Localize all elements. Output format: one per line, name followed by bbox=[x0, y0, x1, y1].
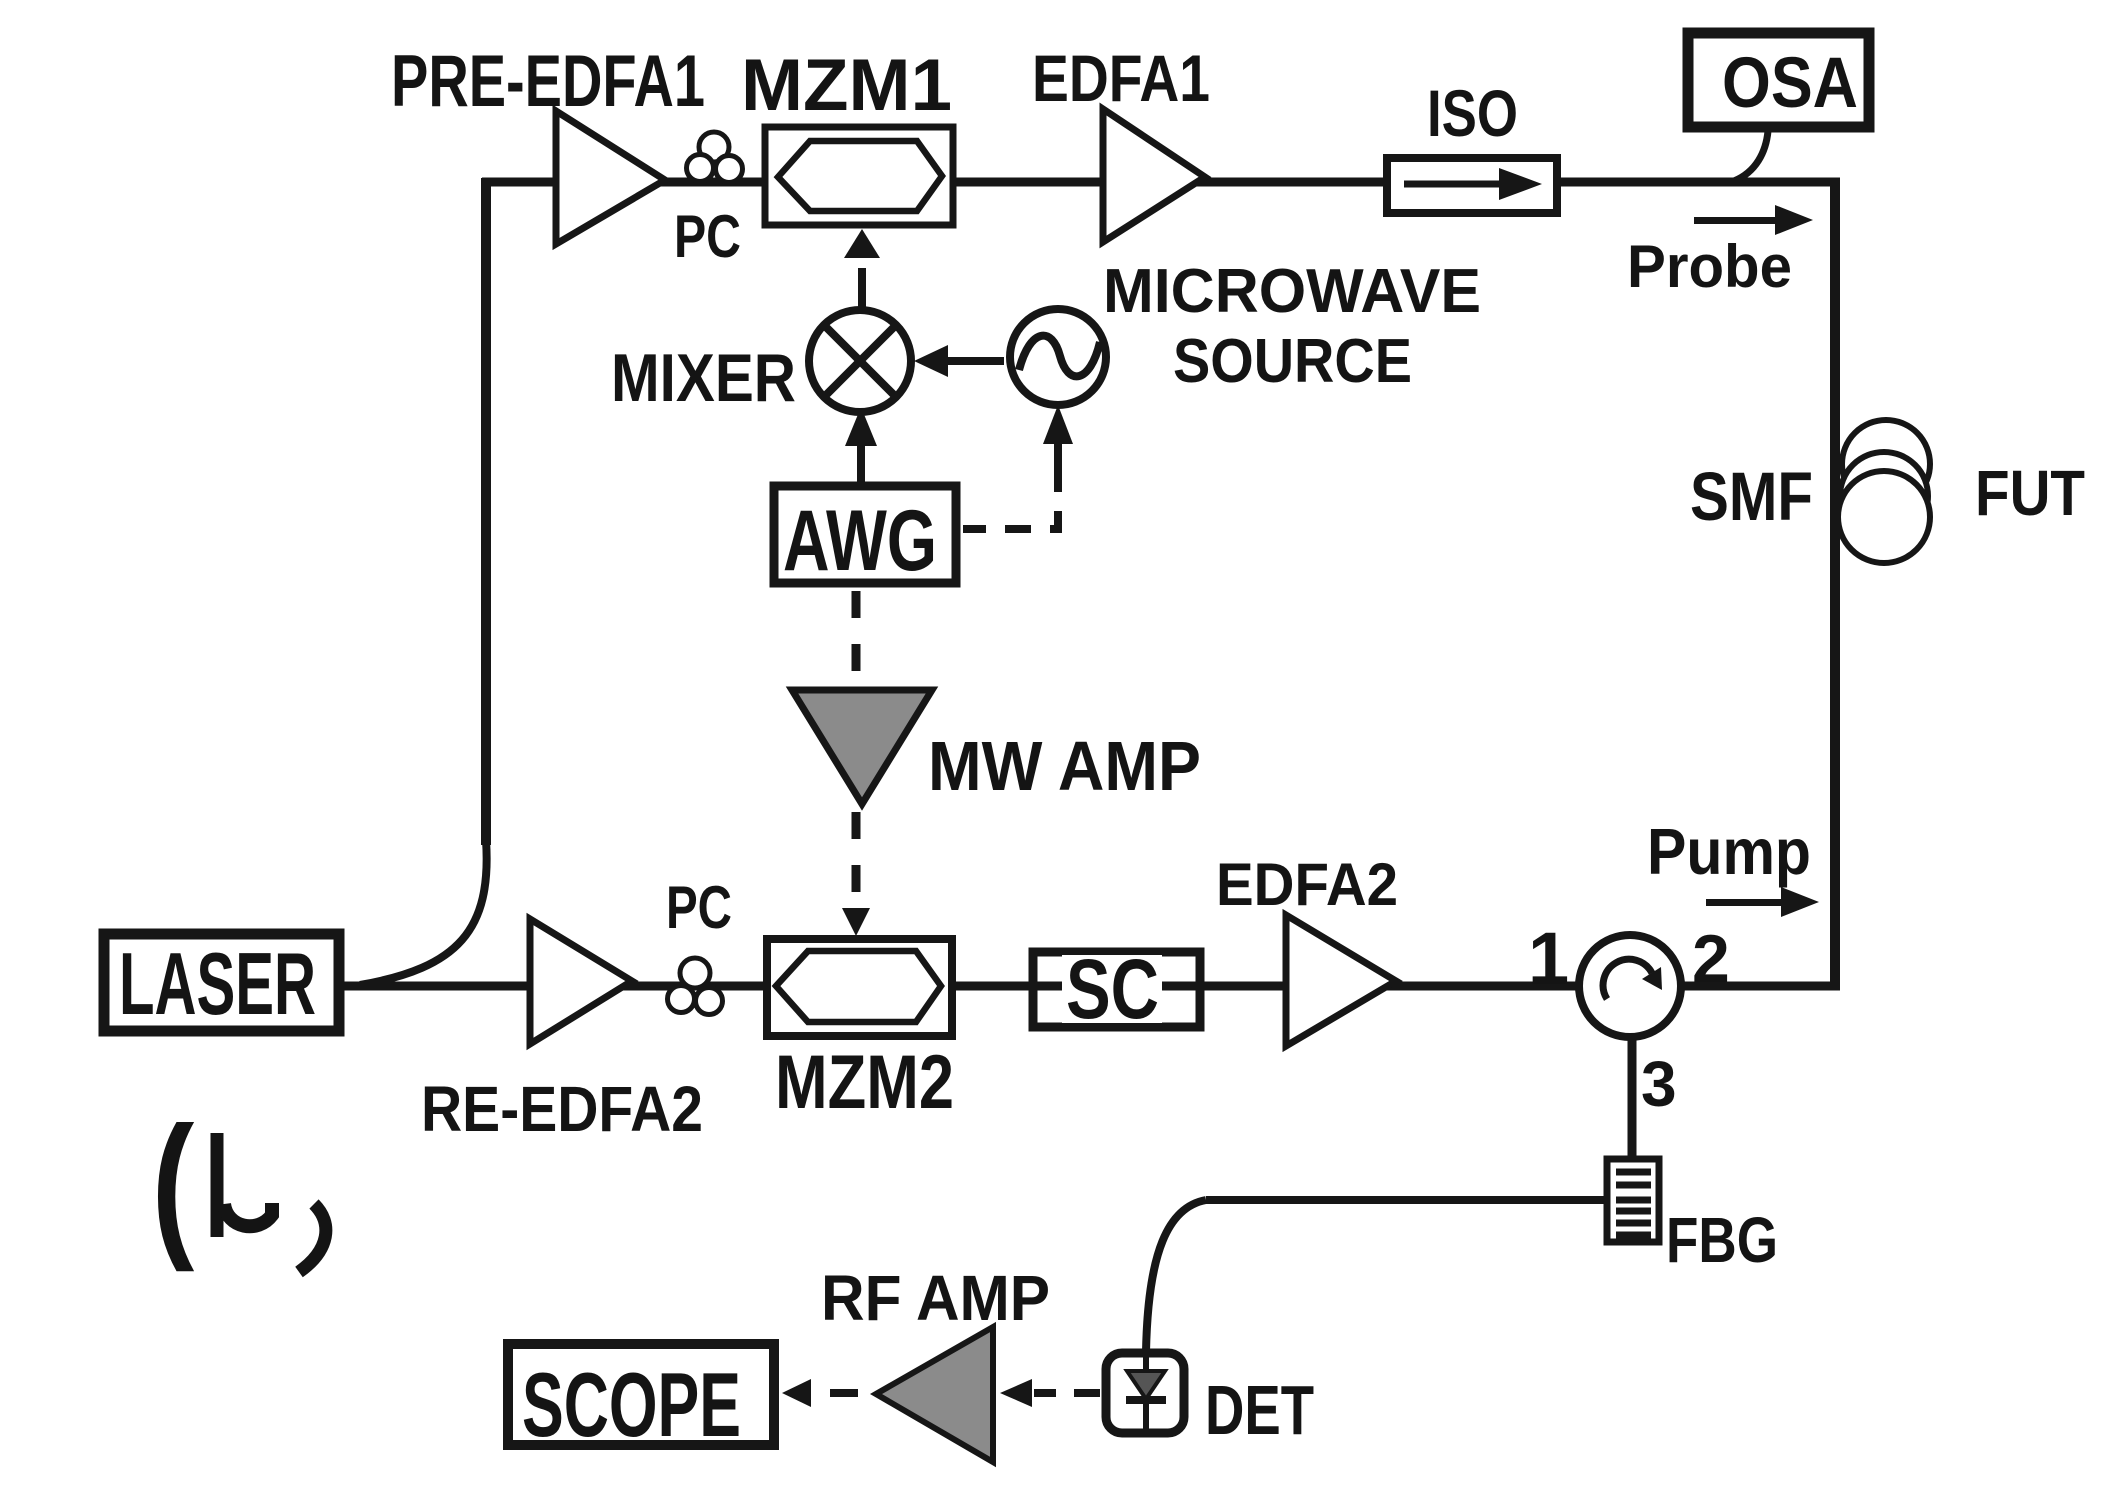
svg-text:FBG: FBG bbox=[1666, 1204, 1778, 1276]
modulator MZM2 box bbox=[767, 939, 952, 1036]
caption (b) partial letter b bbox=[217, 1133, 272, 1237]
wire through SC box bbox=[1033, 982, 1200, 991]
svg-text:EDFA2: EDFA2 bbox=[1216, 851, 1398, 918]
svg-text:1: 1 bbox=[1528, 917, 1569, 1000]
wire dashed RF AMP to SCOPE bbox=[812, 1389, 858, 1397]
svg-text:3: 3 bbox=[1641, 1048, 1677, 1120]
wire dashed AWG to microwave source trigger bbox=[963, 466, 1058, 529]
svg-text:EDFA1: EDFA1 bbox=[1032, 41, 1210, 115]
polarization controller PC1 loop left bbox=[687, 155, 714, 182]
circulator arc arrowhead bbox=[1642, 967, 1662, 990]
arrowhead into RF AMP from DET bbox=[1000, 1379, 1032, 1407]
arrowhead into MZM2 RF port bbox=[842, 908, 870, 936]
wire OSA tap curve bbox=[1734, 131, 1768, 181]
wire bottom pump bus bbox=[340, 982, 1840, 991]
svg-text:2: 2 bbox=[1692, 921, 1730, 997]
svg-text:ISO: ISO bbox=[1427, 76, 1518, 150]
svg-text:OSA: OSA bbox=[1722, 44, 1858, 123]
wire left vertical riser bbox=[481, 178, 491, 845]
generator AWG box bbox=[774, 486, 956, 583]
wire right vertical SMF link bbox=[1830, 178, 1840, 990]
scope SCOPE box bbox=[508, 1344, 774, 1445]
amplifier PRE-EDFA1 triangle bbox=[556, 111, 665, 244]
svg-text:DET: DET bbox=[1205, 1371, 1314, 1449]
svg-text:MW AMP: MW AMP bbox=[928, 727, 1201, 805]
amplifier MW AMP triangle bbox=[792, 690, 932, 804]
wire mixer output up-arrow stem bbox=[857, 442, 865, 486]
amplifier EDFA1 triangle bbox=[1103, 109, 1205, 242]
wire dashed DET to RF AMP bbox=[1034, 1389, 1100, 1397]
svg-text:MZM1: MZM1 bbox=[741, 45, 952, 126]
polarization controller PC1 loop top bbox=[699, 132, 729, 162]
arrowhead probe direction bbox=[1775, 205, 1813, 235]
mixer circle bbox=[809, 310, 911, 412]
isolator ISO arrow shaft bbox=[1404, 181, 1500, 188]
circulator rotation arc bbox=[1603, 959, 1652, 999]
detector DET photodiode symbol bbox=[1126, 1357, 1166, 1430]
svg-text:LASER: LASER bbox=[119, 934, 316, 1033]
svg-text:RE-EDFA2: RE-EDFA2 bbox=[421, 1073, 703, 1145]
modulator MZM1 box bbox=[765, 127, 953, 225]
caption (b) right paren bbox=[299, 1204, 326, 1272]
supercontinuum SC box bbox=[1033, 952, 1200, 1027]
svg-text:MZM2: MZM2 bbox=[775, 1040, 954, 1125]
fiber coil FUT loop bottom bbox=[1838, 471, 1930, 563]
arrowhead pump direction bbox=[1781, 887, 1819, 917]
fiber coil FUT loop middle bbox=[1840, 452, 1928, 540]
wire dashed AWG down to MW AMP bbox=[852, 591, 861, 684]
svg-text:FUT: FUT bbox=[1975, 457, 2085, 529]
polarization controller PC2 loop top bbox=[680, 958, 710, 988]
svg-text:PC: PC bbox=[666, 874, 732, 941]
wire probe arrow shaft bbox=[1694, 217, 1780, 224]
amplifier RF AMP triangle bbox=[876, 1327, 993, 1462]
isolator ISO box bbox=[1387, 158, 1557, 213]
wire MZM1 RF drive stem bbox=[858, 268, 866, 312]
svg-text:PRE-EDFA1: PRE-EDFA1 bbox=[391, 41, 705, 122]
wire pump arrow shaft bbox=[1706, 899, 1786, 906]
wire dashed MW AMP down to MZM2 bbox=[852, 812, 861, 914]
grating FBG stripes bbox=[1616, 1172, 1651, 1235]
svg-text:Pump: Pump bbox=[1647, 815, 1811, 888]
detector DET box bbox=[1106, 1353, 1184, 1433]
wire circulator port 3 down-link bbox=[1628, 1030, 1637, 1162]
wire microwave source output arrow to mixer bbox=[944, 357, 1004, 365]
amplifier PRE-EDFA2 triangle bbox=[530, 919, 632, 1044]
laser LASER box bbox=[104, 934, 339, 1031]
polarization controller PC1 loop right bbox=[716, 156, 743, 183]
svg-text:SCOPE: SCOPE bbox=[522, 1355, 741, 1456]
grating FBG box bbox=[1607, 1159, 1659, 1242]
wire FBG horizontal feed bbox=[1206, 1196, 1607, 1204]
arrowhead into SCOPE from RF AMP bbox=[782, 1379, 811, 1407]
wire top probe bus bbox=[482, 178, 1840, 187]
arrowhead into microwave source bottom bbox=[1043, 405, 1073, 444]
isolator ISO arrowhead bbox=[1499, 168, 1542, 200]
arrowhead of source-to-mixer wire bbox=[914, 345, 948, 377]
wire coupler split curve from laser line up to riser bbox=[360, 840, 487, 985]
modulator MZM1 inner interferometer bbox=[778, 141, 942, 211]
microwave source circle bbox=[1010, 309, 1106, 405]
mixer X mark bbox=[825, 326, 895, 396]
svg-text:SC: SC bbox=[1066, 942, 1159, 1036]
analyzer OSA box bbox=[1688, 33, 1869, 127]
circulator circle bbox=[1579, 935, 1681, 1037]
microwave source sine wave bbox=[1019, 336, 1100, 377]
wire curve from FBG feed down to DET bbox=[1146, 1200, 1206, 1352]
SC text backing bbox=[1062, 955, 1162, 1023]
svg-text:PC: PC bbox=[674, 203, 741, 270]
svg-text:MICROWAVE: MICROWAVE bbox=[1103, 257, 1481, 326]
svg-text:RF AMP: RF AMP bbox=[821, 1262, 1050, 1334]
amplifier EDFA2 triangle bbox=[1286, 915, 1396, 1046]
svg-text:SOURCE: SOURCE bbox=[1173, 327, 1412, 396]
arrowhead into MZM1 RF port bbox=[844, 229, 880, 258]
fiber coil FUT loop top bbox=[1842, 420, 1930, 508]
polarization controller PC2 loop left bbox=[668, 986, 695, 1013]
svg-text:(: ( bbox=[152, 1093, 195, 1272]
polarization controller PC2 loop right bbox=[696, 988, 723, 1015]
wire microwave source trigger stem bbox=[1054, 440, 1062, 470]
svg-text:MIXER: MIXER bbox=[611, 340, 796, 416]
svg-text:AWG: AWG bbox=[783, 493, 937, 589]
svg-text:Probe: Probe bbox=[1627, 233, 1792, 300]
svg-text:SMF: SMF bbox=[1690, 458, 1813, 535]
arrowhead into mixer bottom bbox=[845, 407, 877, 446]
modulator MZM2 inner interferometer bbox=[776, 951, 941, 1022]
